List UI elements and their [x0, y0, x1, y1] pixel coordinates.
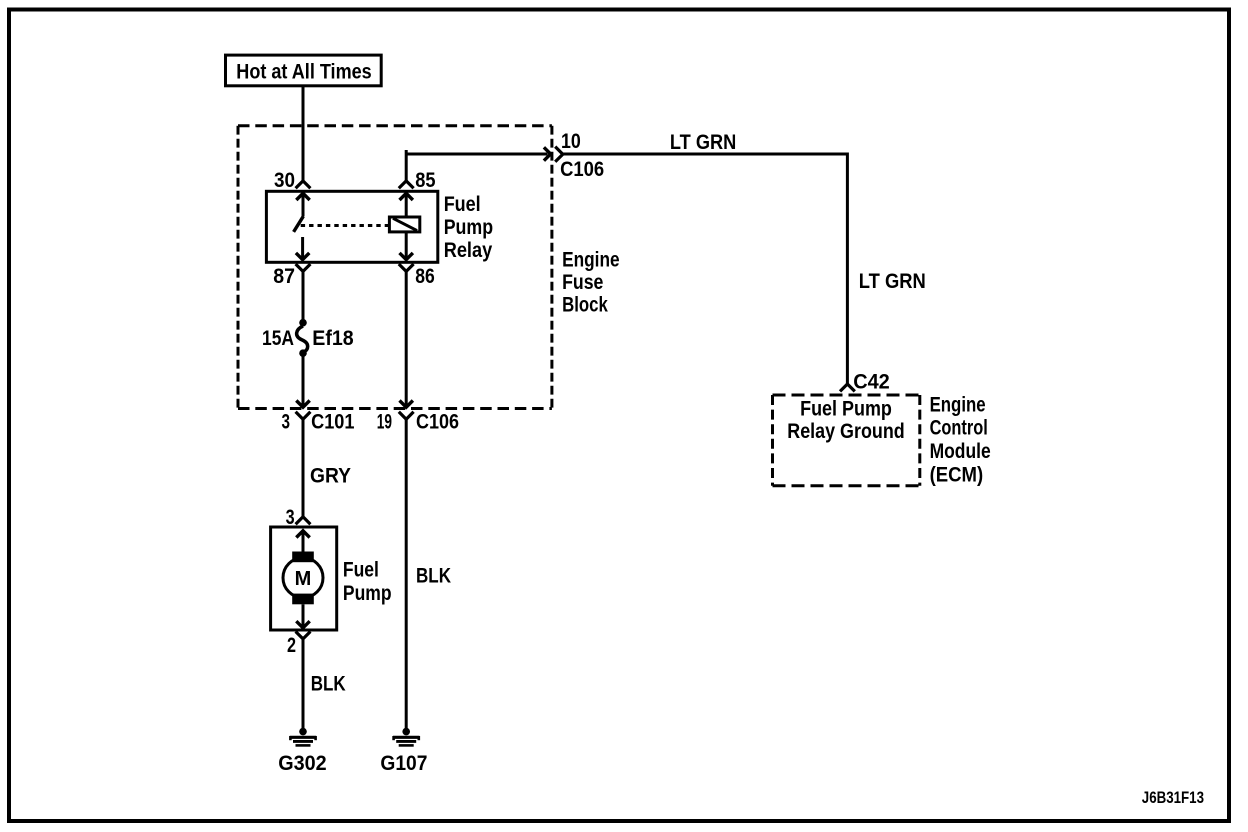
relay contact arm arrow (pin 30 side)	[296, 193, 309, 200]
fuel pump box	[271, 527, 337, 630]
svg-text:Fuel Pump: Fuel Pump	[800, 397, 892, 420]
wire: Hot box to pin 30	[302, 86, 305, 181]
connector terminal pin 86	[399, 264, 414, 271]
svg-text:Hot at All Times: Hot at All Times	[236, 60, 371, 83]
pump lead arrow top	[296, 531, 309, 538]
svg-text:2: 2	[287, 634, 296, 657]
motor M brush bottom	[292, 594, 314, 605]
svg-text:BLK: BLK	[311, 673, 346, 696]
svg-text:30: 30	[274, 169, 295, 192]
relay switch blade	[294, 216, 304, 232]
relay contact to pin 87 arrow	[301, 237, 304, 258]
svg-text:Pump: Pump	[343, 582, 392, 605]
svg-text:19: 19	[377, 411, 392, 434]
connector C101 terminal 3	[296, 412, 311, 419]
svg-text:Engine: Engine	[930, 394, 986, 417]
connector C106 terminal 19	[399, 412, 414, 419]
svg-text:Fuel: Fuel	[444, 193, 481, 216]
fuse Ef18 15A	[299, 319, 307, 327]
connector fuel pump pin 3	[296, 517, 311, 524]
svg-text:Fuel: Fuel	[343, 559, 379, 582]
svg-text:Relay: Relay	[444, 239, 493, 262]
svg-text:C101: C101	[311, 411, 355, 434]
connector C106 terminal 10	[555, 147, 563, 162]
svg-text:C106: C106	[416, 411, 459, 434]
motor M circle	[283, 558, 323, 598]
svg-text:G107: G107	[380, 752, 427, 775]
svg-text:85: 85	[415, 169, 436, 192]
svg-text:Fuse: Fuse	[562, 271, 603, 294]
wire: fuse to connector C101 with arrow	[302, 357, 305, 406]
svg-text:Module: Module	[930, 440, 991, 463]
ground G302	[290, 728, 316, 746]
svg-text:G302: G302	[278, 752, 326, 775]
svg-text:87: 87	[273, 265, 295, 288]
relay coil to pin 86 arrow	[405, 232, 408, 258]
svg-text:C42: C42	[853, 371, 890, 394]
relay control dashed line	[301, 224, 390, 227]
connector fuel pump pin 2	[296, 632, 311, 639]
connector terminal pin 87	[296, 264, 311, 271]
relay coil	[389, 217, 419, 232]
wire: pin 86 to connector C106-19 with arrow	[405, 271, 408, 405]
wire: pump pin 2 to ground G302	[302, 639, 305, 729]
svg-text:Pump: Pump	[444, 216, 493, 239]
relay coil lead arrow (pin 85 side)	[400, 193, 413, 200]
svg-text:Block: Block	[562, 294, 608, 317]
connector terminal C42	[840, 384, 855, 391]
svg-text:LT GRN: LT GRN	[670, 131, 736, 154]
svg-text:LT GRN: LT GRN	[859, 270, 926, 293]
svg-text:86: 86	[415, 265, 435, 288]
pump lead arrow bottom	[302, 604, 305, 626]
wire: relay 85 up and right to C106-10 with arrow	[405, 150, 408, 181]
Engine Fuse Block dashed box	[238, 126, 552, 409]
svg-text:(ECM): (ECM)	[930, 464, 984, 487]
svg-text:15A: 15A	[262, 327, 294, 350]
svg-text:J6B31F13: J6B31F13	[1142, 788, 1204, 807]
svg-text:Engine: Engine	[562, 249, 620, 272]
svg-text:GRY: GRY	[310, 465, 351, 488]
svg-text:Ef18: Ef18	[312, 327, 354, 350]
svg-text:M: M	[295, 568, 312, 590]
relay K box	[266, 191, 437, 262]
wire: pin 87 to fuse Ef18	[302, 271, 305, 320]
wire: C106-10 to ECM C42	[563, 154, 848, 384]
svg-text:Relay Ground: Relay Ground	[787, 420, 904, 443]
ECM dashed box Fuel Pump Relay Ground	[773, 395, 920, 486]
ground G107	[393, 728, 419, 746]
connector terminal pin 30	[296, 181, 311, 188]
svg-text:Control: Control	[930, 416, 988, 439]
svg-text:BLK: BLK	[416, 565, 451, 588]
power source box "Hot at All Times"	[226, 55, 382, 86]
svg-text:C106: C106	[560, 158, 604, 181]
connector terminal pin 85	[399, 181, 414, 188]
wire: C106-19 to ground G107	[405, 419, 408, 728]
motor M brush top	[292, 552, 314, 563]
wire: C101 to fuel pump pin 3	[302, 419, 305, 517]
svg-text:3: 3	[282, 411, 291, 434]
svg-text:10: 10	[561, 130, 581, 153]
